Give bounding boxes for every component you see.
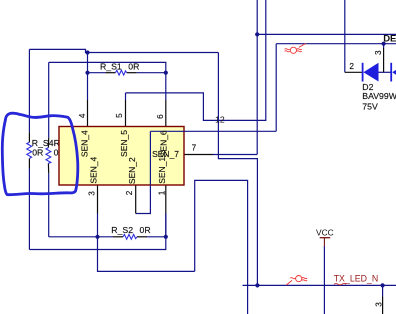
svg-text:7: 7 <box>192 144 197 153</box>
svg-text:2: 2 <box>125 190 134 195</box>
pin 3 bottom stub <box>382 296 384 314</box>
junction TX wire right <box>381 283 385 287</box>
wire pin4 vertical <box>87 53 89 101</box>
diode D2 right triangle (clipped) <box>392 64 396 82</box>
svg-text:SEN_2: SEN_2 <box>127 157 137 184</box>
svg-text:0R: 0R <box>128 62 139 72</box>
resistor R_S1 zigzag <box>115 70 126 75</box>
junction pin7 net top <box>255 32 259 36</box>
pin 2 of D2 <box>345 71 362 73</box>
wire inner-rect left edge upper <box>48 62 50 137</box>
svg-text:BAV99W: BAV99W <box>362 91 396 101</box>
svg-text:3: 3 <box>374 302 383 307</box>
error squiggle marker top <box>285 44 306 54</box>
svg-text:0R: 0R <box>32 148 43 158</box>
wire pin4-net to TX wire <box>218 53 257 286</box>
svg-text:SEN_5: SEN_5 <box>119 130 129 157</box>
svg-text:SEN_4: SEN_4 <box>88 156 98 183</box>
pin 1 <box>165 185 167 214</box>
svg-text:3: 3 <box>374 50 383 55</box>
svg-text:SEN_1: SEN_1 <box>157 157 167 184</box>
svg-text:R_S2: R_S2 <box>111 225 133 235</box>
pin 3 of D2 <box>383 48 385 72</box>
hand-drawn annotation scribble <box>2 113 78 194</box>
power port VCC stem <box>323 238 325 247</box>
svg-text:R_S1: R_S1 <box>100 62 122 72</box>
wire R_S2 horizontal run <box>49 236 113 238</box>
pin 7 <box>184 154 213 156</box>
wire pin3 net below <box>98 214 195 272</box>
wire n-shape routing <box>195 180 248 314</box>
junction TX wire left <box>255 283 259 287</box>
resistor R_S3 pin stubs <box>47 138 49 148</box>
junction R_S2 left <box>95 235 99 239</box>
junction R_S2 right <box>164 235 168 239</box>
pin 3 <box>97 185 99 214</box>
wire DE net vertical <box>275 44 277 132</box>
svg-text:12: 12 <box>215 115 225 125</box>
wire pin2 net through box <box>136 131 277 213</box>
pin 2 <box>135 185 137 214</box>
resistor R_S4 pin stubs <box>28 132 30 142</box>
wire pin6 vertical <box>165 73 167 100</box>
wire DE net horizontal to right edge <box>276 43 396 45</box>
svg-text:R_S4: R_S4 <box>32 138 54 148</box>
wire pin7 blue part <box>213 154 257 156</box>
wire outer-rect left edge lower <box>28 169 30 250</box>
wire pin7-net vertical to top edge <box>256 0 258 155</box>
resistor R_S1 pin stubs <box>105 72 115 74</box>
wire pin5 to top edge <box>125 93 127 100</box>
wire pin2-net inside box <box>150 130 184 132</box>
wire pin1 below <box>165 214 167 237</box>
power port VCC bar <box>320 237 331 239</box>
svg-text:3: 3 <box>87 191 96 196</box>
svg-text:VCC: VCC <box>316 227 334 237</box>
error underline under TX_LED_N <box>334 284 346 285</box>
svg-text:1: 1 <box>157 190 166 195</box>
resistor R_S4 zigzag (vertical, left) <box>27 142 32 158</box>
junction DE net <box>382 42 386 46</box>
pin 6 <box>165 100 167 127</box>
wire outer-rect bottom <box>29 214 165 250</box>
resistor R_S2 zigzag <box>123 234 137 239</box>
svg-text:TX_LED_N: TX_LED_N <box>334 274 379 284</box>
diode D2 left cathode bar <box>362 63 364 82</box>
wire inner-rect left edge lower <box>48 173 50 237</box>
svg-text:DE: DE <box>383 34 396 45</box>
diode D2 left triangle <box>363 63 378 82</box>
wire TX_LED_N horizontal <box>243 284 396 286</box>
pin 5 <box>125 100 127 127</box>
wire outer-rect top-left <box>29 49 218 52</box>
wire VCC down <box>323 247 325 314</box>
wire R_S1 horizontal run <box>88 72 106 74</box>
junction at outer top / pin4 <box>85 50 89 54</box>
svg-text:SEN_4: SEN_4 <box>79 130 89 157</box>
resistor R_S3 zigzag (vertical, right) <box>46 148 51 164</box>
resistor R_S2 pin stubs <box>113 236 123 238</box>
wire outer-rect left edge upper <box>28 49 30 132</box>
svg-text:6: 6 <box>156 114 165 119</box>
wire inner-rect top <box>49 62 166 72</box>
wire bottom pin3 stub blue <box>382 285 384 296</box>
svg-text:4: 4 <box>78 113 87 118</box>
svg-text:5: 5 <box>115 113 124 118</box>
wire between diodes <box>379 71 392 73</box>
wire D2 pin2 net from top edge <box>344 0 346 72</box>
pin 4 <box>87 100 89 127</box>
error squiggle marker bottom <box>286 276 307 286</box>
diode D2 right cathode bar <box>390 63 392 82</box>
junction R_S1 right <box>164 71 168 75</box>
svg-text:SEN_7: SEN_7 <box>152 149 179 159</box>
component U1 body <box>59 127 184 186</box>
wire pin7-net top branch to right edge <box>257 33 396 35</box>
junction R_S1 left <box>85 71 89 75</box>
svg-text:0R: 0R <box>140 225 151 235</box>
wire D2 pin3 stub blue <box>383 44 385 48</box>
svg-text:75V: 75V <box>362 102 378 112</box>
svg-text:2: 2 <box>349 62 354 71</box>
